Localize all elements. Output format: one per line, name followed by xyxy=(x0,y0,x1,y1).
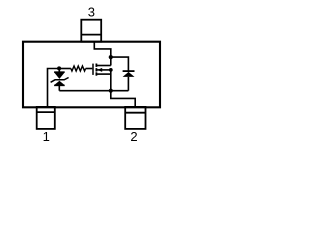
svg-text:3: 3 xyxy=(88,4,95,19)
svg-text:2: 2 xyxy=(130,129,137,144)
svg-text:1: 1 xyxy=(43,129,50,144)
